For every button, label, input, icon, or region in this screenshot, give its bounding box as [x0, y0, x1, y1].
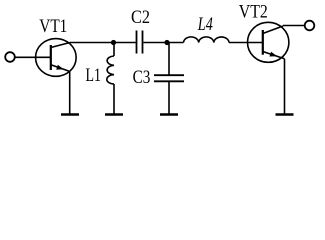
output terminal — [305, 21, 315, 31]
node junction dot L1 tap — [111, 40, 116, 45]
wire top rail (collector VT1 to C2) — [70, 42, 136, 44]
wire C2 to L4 — [144, 42, 184, 44]
svg-text:C3: C3 — [133, 67, 151, 88]
svg-text:VT1: VT1 — [39, 16, 67, 37]
ground (C3) — [160, 113, 178, 115]
inductor L4 — [184, 37, 230, 43]
wire VT2 collector to output — [283, 25, 305, 27]
transistor VT2 — [248, 22, 289, 62]
transistor VT1 — [36, 39, 77, 77]
node junction dot C3 tap — [164, 40, 169, 45]
svg-text:L4: L4 — [197, 14, 213, 35]
ground (VT1 emitter) — [61, 113, 79, 115]
ground (VT2 emitter) — [276, 113, 294, 115]
svg-text:VT2: VT2 — [239, 2, 268, 23]
svg-text:C2: C2 — [131, 7, 150, 28]
wire VT1 emitter to ground — [69, 71, 71, 113]
wire VT2 emitter to ground — [284, 59, 286, 114]
capacitor C3 — [154, 43, 184, 114]
inductor L1 — [107, 43, 114, 114]
input terminal — [5, 52, 15, 62]
ground (L1) — [105, 113, 123, 115]
wire L4 to VT2 base — [229, 42, 263, 44]
svg-text:L1: L1 — [86, 65, 102, 86]
wire input to VT1 base — [15, 56, 51, 58]
capacitor C2 — [137, 31, 143, 54]
